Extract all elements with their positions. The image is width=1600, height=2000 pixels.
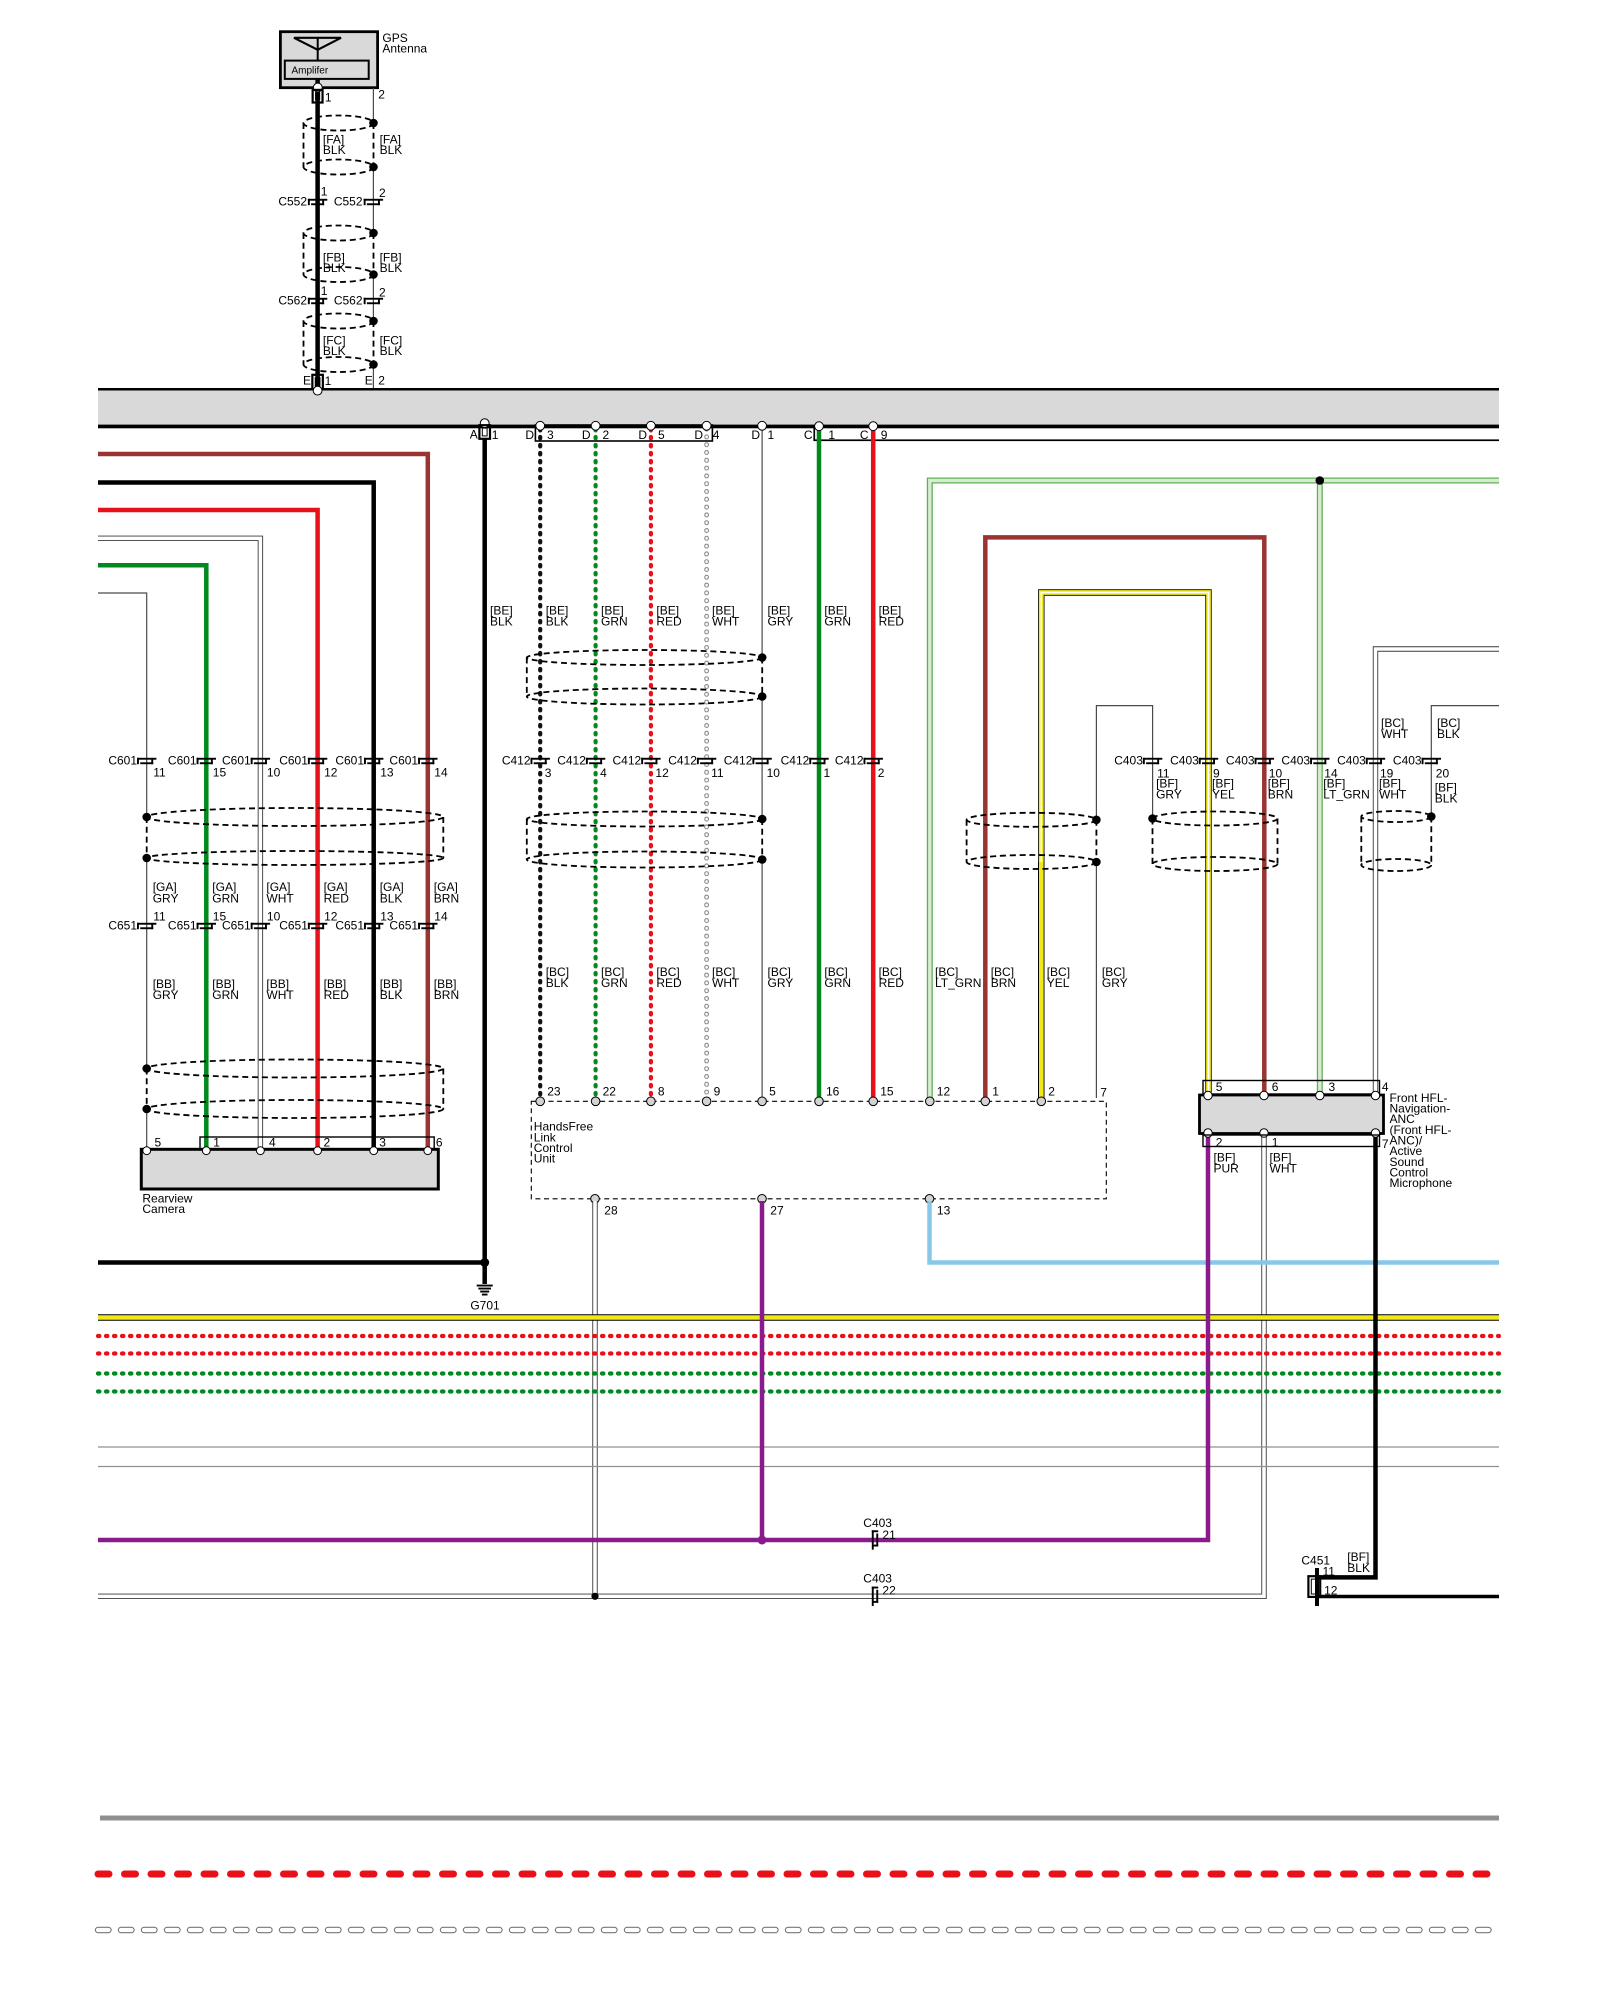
svg-text:BLK: BLK — [490, 614, 513, 628]
ANC mic top connector strip — [1203, 1081, 1380, 1095]
HFL bottom pin circles — [591, 1195, 934, 1204]
svg-text:2: 2 — [324, 1135, 331, 1149]
svg-text:D: D — [694, 428, 703, 442]
svg-text:C: C — [804, 428, 813, 442]
svg-text:C651: C651 — [389, 918, 418, 932]
svg-text:GRY: GRY — [768, 614, 794, 628]
wire BLK from C451-12 to right edge — [1317, 1595, 1499, 1598]
svg-text:2: 2 — [379, 186, 386, 200]
amplifier box with label — [285, 61, 369, 79]
svg-text:C412: C412 — [781, 754, 810, 768]
label C562 (right) — [334, 293, 363, 307]
connector C562 pin 1 — [308, 298, 327, 304]
wire [BF] WHT from ANC pin 1 — [98, 1136, 1264, 1596]
wire [BC]/[BF] BRN to C403-10 — [985, 537, 1264, 1098]
connector pin E1 at bus bar — [312, 375, 323, 390]
svg-text:2: 2 — [378, 374, 385, 388]
HandsFree Link Control Unit dashed box — [531, 1101, 1106, 1199]
wire GRY bus 1 — [98, 1446, 1499, 1448]
svg-text:Unit: Unit — [534, 1152, 556, 1166]
label C552 (left) — [278, 194, 307, 208]
label [FA] BLK left — [323, 132, 346, 157]
HFL top pin circles — [536, 1097, 1046, 1106]
pin number 1 (A) — [492, 428, 499, 442]
svg-text:BLK: BLK — [380, 143, 403, 157]
label C pin 9 — [860, 428, 888, 442]
svg-text:3: 3 — [547, 428, 554, 442]
label C pin 1 — [804, 428, 836, 442]
svg-text:C403: C403 — [1281, 754, 1310, 768]
wire [BE]/[BC] GRY D1 — [761, 426, 763, 1099]
wire [BC]/[BF] BLK shield drain via C403-20 — [1431, 706, 1499, 818]
antenna symbol — [294, 38, 341, 61]
svg-text:D: D — [638, 428, 647, 442]
svg-text:5: 5 — [155, 1135, 162, 1149]
svg-text:14: 14 — [434, 766, 448, 780]
wire [GA]/[BB] BLK — [98, 483, 374, 1151]
svg-text:RED: RED — [879, 614, 905, 628]
svg-text:7: 7 — [1100, 1085, 1107, 1099]
svg-text:WHT: WHT — [712, 614, 740, 628]
camera pin numbers 5 1 4 2 3 6 — [155, 1135, 443, 1149]
HFL bottom pin numbers 28 27 13 — [604, 1203, 950, 1217]
svg-text:BLK: BLK — [380, 891, 403, 905]
wire YEL horizontal bus — [98, 1314, 1499, 1320]
pin number 12 (C451) — [1324, 1584, 1338, 1598]
rearview camera connector strip — [200, 1137, 434, 1150]
connector row C651 — [108, 918, 437, 932]
svg-text:12: 12 — [1324, 1584, 1338, 1598]
svg-text:GRY: GRY — [153, 891, 179, 905]
pin number 21 — [882, 1528, 896, 1542]
wire [BE]/[BC] GRN D2 dotted — [593, 429, 597, 1098]
label [FC] BLK left — [323, 333, 346, 358]
svg-text:C412: C412 — [668, 754, 697, 768]
label G701 — [470, 1299, 500, 1313]
svg-text:BLK: BLK — [380, 988, 403, 1002]
pin number 2 (GPS) — [378, 87, 385, 101]
wire [GA]/[BB] RED — [98, 510, 318, 1150]
wire PUR from HFL pin 27 — [760, 1201, 765, 1540]
svg-text:C651: C651 — [279, 918, 308, 932]
svg-text:BLK: BLK — [1347, 1561, 1370, 1575]
connector C562 pin 2 — [364, 298, 383, 304]
svg-text:20: 20 — [1436, 767, 1450, 781]
wire [BE]/[BC] GRN C1 — [817, 429, 822, 1098]
svg-text:C651: C651 — [222, 918, 251, 932]
connector C403 pin 21 on PUR bus — [872, 1530, 878, 1549]
svg-text:BLK: BLK — [546, 614, 569, 628]
svg-text:1: 1 — [325, 374, 332, 388]
C601 pin numbers — [153, 766, 448, 780]
svg-text:WHT: WHT — [266, 891, 294, 905]
svg-text:GRY: GRY — [768, 976, 794, 990]
wire [BE]/[BC] BLK D3 dotted — [538, 429, 542, 1098]
svg-text:C651: C651 — [335, 918, 364, 932]
svg-text:E: E — [303, 374, 311, 388]
wire [BC] LT_GRN with branch to C403-14 — [930, 481, 1499, 1099]
junction PUR — [758, 1536, 767, 1545]
wire [BE]/[BC] WHT D4 dotted — [704, 429, 709, 1098]
separator RED dashed line — [98, 1871, 1499, 1878]
svg-text:2: 2 — [603, 428, 610, 442]
shield mid lower (BC group) — [527, 812, 767, 868]
ground symbol G701 — [477, 1285, 493, 1296]
svg-text:3: 3 — [1329, 1080, 1336, 1094]
C651 pin numbers — [153, 909, 448, 923]
svg-text:A: A — [470, 428, 478, 442]
connector C403 pin 22 on WHT bus — [872, 1587, 878, 1606]
connector C552 pin 1 — [308, 199, 327, 205]
wire [BE]/[BC] RED D5 dotted — [649, 429, 653, 1098]
camera pin circles — [143, 1147, 432, 1155]
svg-text:Antenna: Antenna — [382, 41, 427, 55]
wire [BC]/[BF] YEL to C403-9 — [1041, 593, 1208, 1099]
svg-text:YEL: YEL — [1047, 976, 1070, 990]
wire [BE]/[BC] RED C9 — [871, 429, 876, 1098]
junction LT_GRN branch — [1316, 476, 1325, 485]
svg-text:RED: RED — [879, 976, 905, 990]
connector pin A1 — [479, 425, 490, 439]
svg-text:22: 22 — [603, 1085, 617, 1099]
label C403 (21) — [863, 1516, 892, 1530]
svg-text:16: 16 — [826, 1085, 840, 1099]
svg-text:21: 21 — [882, 1528, 896, 1542]
svg-text:C: C — [860, 428, 869, 442]
label D pin 1 — [751, 428, 774, 442]
svg-text:WHT: WHT — [266, 988, 294, 1002]
svg-text:C403: C403 — [1393, 754, 1422, 768]
svg-text:GRY: GRY — [1102, 976, 1128, 990]
pin number 2 above C562 — [379, 285, 386, 299]
ANC bottom pin circles — [1204, 1129, 1380, 1137]
label C562 (left) — [278, 293, 307, 307]
svg-text:BLK: BLK — [323, 261, 346, 275]
svg-text:12: 12 — [655, 766, 669, 780]
svg-text:WHT: WHT — [1381, 727, 1409, 741]
wire [BC]/[BF] GRY shield drain to C403-11 — [1096, 706, 1152, 1098]
label D pin 3 — [525, 428, 554, 442]
connector C face line on bus bar — [813, 425, 1499, 441]
svg-text:6: 6 — [436, 1135, 443, 1149]
labels [BB] colors — [153, 977, 459, 1002]
svg-text:BRN: BRN — [1268, 788, 1293, 802]
labels [GA] colors — [153, 880, 459, 905]
svg-text:1: 1 — [213, 1135, 220, 1149]
pin number 22 — [882, 1584, 896, 1598]
labels [BE] colors — [490, 603, 904, 628]
svg-text:13: 13 — [380, 766, 394, 780]
svg-text:C601: C601 — [108, 754, 137, 768]
svg-text:7: 7 — [1382, 1137, 1389, 1151]
main harness bus bar — [98, 388, 1499, 428]
svg-text:C403: C403 — [1337, 754, 1366, 768]
label Rearview Camera — [142, 1191, 192, 1216]
svg-text:G701: G701 — [470, 1299, 500, 1313]
svg-text:BLK: BLK — [546, 976, 569, 990]
svg-text:2: 2 — [378, 87, 385, 101]
svg-text:C651: C651 — [108, 918, 137, 932]
svg-text:C403: C403 — [1170, 754, 1199, 768]
svg-text:1: 1 — [824, 766, 831, 780]
shield right (WHT/BLK pair) — [1361, 811, 1435, 871]
svg-text:1: 1 — [1272, 1135, 1279, 1149]
svg-text:WHT: WHT — [712, 976, 740, 990]
Front HFL-ANC microphone box — [1200, 1095, 1384, 1134]
shield right (YEL/BRN pair at C403) — [1148, 812, 1277, 872]
svg-text:22: 22 — [882, 1584, 896, 1598]
label [FB] BLK left — [323, 250, 346, 275]
svg-text:10: 10 — [767, 766, 781, 780]
HFL pin number 7 — [1100, 1085, 1107, 1099]
svg-text:C562: C562 — [334, 293, 363, 307]
wire GRN dotted bus 2 — [98, 1389, 1499, 1393]
connector row C403 — [1114, 754, 1441, 768]
svg-text:12: 12 — [324, 766, 338, 780]
label C552 (right) — [334, 194, 363, 208]
svg-text:Camera: Camera — [142, 1202, 185, 1216]
svg-text:10: 10 — [267, 766, 281, 780]
svg-text:GRN: GRN — [824, 976, 851, 990]
wire [BF] BLK from ANC pin 7 — [1319, 1136, 1376, 1577]
svg-text:1: 1 — [492, 428, 499, 442]
svg-text:13: 13 — [937, 1203, 951, 1217]
wire GPS pin 2 (shield drain) to bus bar — [372, 88, 374, 390]
pin number 2 (E) — [378, 374, 385, 388]
label [BF] BLK at C451 — [1347, 1550, 1370, 1575]
wire [GA]/[BB] GRN — [98, 565, 206, 1150]
pin number 1 above C562 — [321, 284, 328, 298]
wire [GA]/[BB] GRY — [98, 593, 147, 1150]
svg-text:5: 5 — [658, 428, 665, 442]
svg-text:RED: RED — [324, 988, 350, 1002]
svg-text:RED: RED — [324, 891, 350, 905]
svg-text:1: 1 — [992, 1085, 999, 1099]
rearview camera box — [141, 1149, 438, 1189]
svg-text:9: 9 — [714, 1085, 721, 1099]
svg-text:C601: C601 — [168, 754, 197, 768]
label [FB] BLK right — [380, 250, 403, 275]
pin circle E1 on bus bar top — [313, 386, 322, 395]
pin number 1 above C552 — [321, 185, 328, 199]
svg-text:BRN: BRN — [991, 976, 1016, 990]
svg-text:BLK: BLK — [1435, 791, 1458, 805]
svg-text:C552: C552 — [334, 194, 363, 208]
svg-text:27: 27 — [770, 1203, 784, 1217]
svg-text:8: 8 — [658, 1085, 665, 1099]
svg-text:BRN: BRN — [434, 891, 459, 905]
svg-text:11: 11 — [153, 909, 166, 923]
svg-text:GRN: GRN — [601, 614, 628, 628]
svg-text:2: 2 — [1048, 1085, 1055, 1099]
shield [FC] — [304, 314, 378, 373]
ANC bottom connector strip — [1203, 1135, 1380, 1147]
wire GRN dotted bus 1 — [98, 1371, 1499, 1375]
C412 pin numbers — [545, 766, 885, 780]
svg-text:LT_GRN: LT_GRN — [1323, 788, 1369, 802]
svg-text:BLK: BLK — [1437, 727, 1460, 741]
label Front HFL-Navigation-ANC block — [1390, 1091, 1453, 1190]
labels [BC] WHT / [BC] BLK above C403 — [1381, 716, 1460, 741]
svg-text:C601: C601 — [389, 754, 418, 768]
GPS antenna unit box — [280, 32, 377, 88]
svg-text:WHT: WHT — [1379, 788, 1407, 802]
pin number 1 (E) — [325, 374, 332, 388]
svg-text:GRN: GRN — [212, 988, 239, 1002]
svg-text:5: 5 — [769, 1085, 776, 1099]
svg-text:RED: RED — [656, 614, 682, 628]
pin number 2 above C552 — [379, 186, 386, 200]
wire RED dotted bus 1 — [98, 1334, 1499, 1338]
wire RED dotted bus 2 — [98, 1351, 1499, 1355]
shield left lower (camera group) — [142, 1060, 443, 1119]
svg-text:1: 1 — [828, 428, 835, 442]
svg-text:3: 3 — [545, 766, 552, 780]
svg-text:PUR: PUR — [1214, 1161, 1240, 1175]
svg-text:4: 4 — [269, 1135, 276, 1149]
svg-text:C412: C412 — [613, 754, 642, 768]
svg-text:GRN: GRN — [601, 976, 628, 990]
labels [BF] PUR / [BF] WHT — [1214, 1150, 1298, 1175]
svg-text:3: 3 — [379, 1135, 386, 1149]
wire [BC]/[BF] WHT to C403-19 and ANC pin 4 — [1376, 649, 1500, 1092]
label E (pin1) — [303, 374, 311, 388]
connector pin GPS-1 with circle — [313, 83, 323, 102]
svg-text:C412: C412 — [835, 754, 864, 768]
svg-text:C412: C412 — [557, 754, 586, 768]
wire GRY bus 2 — [98, 1466, 1499, 1468]
label [FC] BLK right — [380, 333, 403, 358]
ANC bottom pin numbers 2 1 7 — [1216, 1135, 1389, 1150]
svg-text:2: 2 — [379, 285, 386, 299]
svg-text:1: 1 — [325, 91, 332, 105]
svg-text:Amplifer: Amplifer — [292, 66, 329, 77]
svg-text:GRY: GRY — [153, 988, 179, 1002]
label E (pin2) — [365, 374, 373, 388]
connector row C601 — [108, 754, 437, 768]
svg-text:E: E — [365, 374, 373, 388]
svg-text:LT_GRN: LT_GRN — [935, 976, 981, 990]
svg-text:BLK: BLK — [323, 143, 346, 157]
svg-text:YEL: YEL — [1212, 788, 1235, 802]
svg-text:C601: C601 — [222, 754, 251, 768]
C403 pin numbers — [1157, 767, 1449, 781]
pin circles on bus bar bottom — [480, 419, 877, 431]
svg-text:9: 9 — [881, 428, 888, 442]
shield [FB] — [304, 226, 378, 283]
svg-text:6: 6 — [1272, 1080, 1279, 1094]
svg-text:D: D — [525, 428, 534, 442]
wire GPS pin 1 (thick BLK) from amplifier to bus bar — [315, 79, 320, 388]
wire WHT from HFL pin 28 — [592, 1201, 597, 1596]
ANC top pin numbers 5 6 3 4 — [1216, 1080, 1389, 1094]
label D pin 4 — [694, 428, 719, 442]
connector pin C451 11/12 — [1308, 1568, 1320, 1606]
wire [GA]/[BB] WHT — [98, 538, 260, 1150]
separator GRY thick line — [100, 1816, 1499, 1821]
svg-text:BLK: BLK — [323, 344, 346, 358]
svg-text:BLK: BLK — [380, 261, 403, 275]
svg-text:D: D — [751, 428, 760, 442]
svg-text:BLK: BLK — [380, 344, 403, 358]
svg-text:Microphone: Microphone — [1390, 1176, 1453, 1190]
label C403 (22) — [863, 1572, 892, 1586]
svg-text:C601: C601 — [279, 754, 308, 768]
svg-text:GRY: GRY — [1156, 788, 1182, 802]
svg-text:28: 28 — [604, 1203, 618, 1217]
shield [FA] — [304, 116, 378, 175]
svg-text:GRN: GRN — [212, 891, 239, 905]
wire LT_BLU from HFL pin 13 — [930, 1201, 1500, 1263]
svg-text:2: 2 — [1216, 1135, 1223, 1149]
junction A1/ground — [480, 1258, 489, 1267]
wire [BF] PUR from ANC pin 2 — [98, 1136, 1208, 1540]
wire [BE] BLK A1 vertical + horizontal to G701 — [98, 439, 485, 1284]
svg-text:D: D — [582, 428, 591, 442]
svg-text:C412: C412 — [502, 754, 531, 768]
svg-text:2: 2 — [878, 766, 885, 780]
svg-text:C403: C403 — [1226, 754, 1255, 768]
wire [GA]/[BB] BRN — [98, 454, 428, 1150]
svg-text:12: 12 — [937, 1085, 951, 1099]
svg-text:11: 11 — [711, 766, 724, 780]
svg-text:C601: C601 — [335, 754, 364, 768]
label C451 — [1301, 1554, 1330, 1568]
pin number 11 (C451) — [1323, 1565, 1336, 1579]
svg-text:GRN: GRN — [824, 614, 851, 628]
svg-text:C651: C651 — [168, 918, 197, 932]
svg-text:WHT: WHT — [1270, 1161, 1298, 1175]
label [FA] BLK right — [380, 132, 403, 157]
svg-text:4: 4 — [713, 428, 720, 442]
svg-text:RED: RED — [656, 976, 682, 990]
svg-text:15: 15 — [213, 766, 227, 780]
connector row C412 — [502, 754, 883, 768]
svg-text:C412: C412 — [724, 754, 753, 768]
labels [BF] colors at C403 — [1156, 776, 1457, 805]
svg-text:BRN: BRN — [434, 988, 459, 1002]
junction WHT — [591, 1593, 598, 1600]
shield left upper (C601 group) — [142, 808, 443, 865]
connector D face box on bus bar — [535, 425, 712, 441]
labels [BC] colors — [546, 965, 1128, 990]
label A (bus) — [470, 428, 478, 442]
svg-text:11: 11 — [1323, 1565, 1336, 1579]
svg-text:11: 11 — [153, 766, 166, 780]
svg-text:5: 5 — [1216, 1080, 1223, 1094]
svg-text:C562: C562 — [278, 293, 307, 307]
svg-text:1: 1 — [321, 284, 328, 298]
ANC top pin circles — [1204, 1091, 1380, 1099]
svg-text:1: 1 — [321, 185, 328, 199]
svg-text:4: 4 — [1382, 1080, 1389, 1094]
svg-text:15: 15 — [880, 1085, 894, 1099]
label D pin 5 — [638, 428, 665, 442]
HFL top pin numbers — [547, 1085, 1055, 1099]
svg-text:4: 4 — [600, 766, 607, 780]
separator WHT dashed line — [98, 1927, 1499, 1933]
svg-text:1: 1 — [768, 428, 775, 442]
svg-text:C552: C552 — [278, 194, 307, 208]
label GPS Antenna — [382, 31, 427, 56]
svg-text:23: 23 — [547, 1085, 561, 1099]
connector C552 pin 2 — [364, 199, 383, 205]
label HandsFree Link Control Unit — [534, 1120, 594, 1166]
svg-text:C403: C403 — [1114, 754, 1143, 768]
label D pin 2 — [582, 428, 610, 442]
shield mid upper (BE group) — [527, 650, 767, 705]
shield right (BRN/YEL pair at HFL) — [967, 813, 1101, 869]
